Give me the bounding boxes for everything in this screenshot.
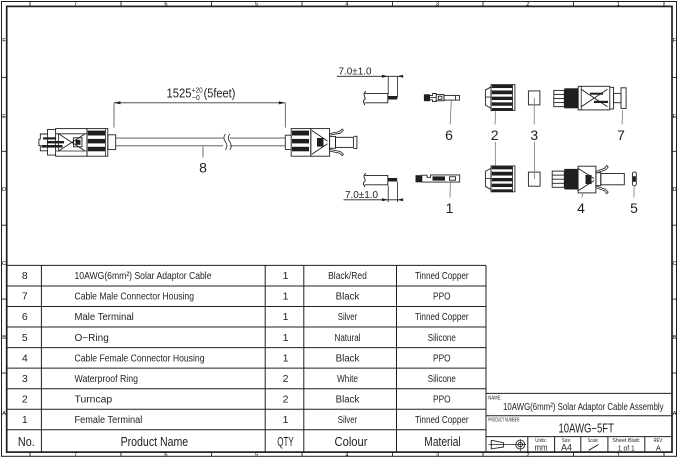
- svg-text:PPO: PPO: [433, 394, 451, 405]
- svg-text:2: 2: [526, 2, 529, 8]
- svg-text:Silicone: Silicone: [428, 333, 456, 344]
- svg-text:Black: Black: [336, 394, 361, 405]
- svg-text:3: 3: [22, 373, 28, 385]
- svg-text:Cable Male Connector Housin: Cable Male Connector Housing: [75, 292, 195, 303]
- svg-text:3: 3: [436, 452, 439, 458]
- svg-text:10AWG(6mm²) Solar Adaptor C: 10AWG(6mm²) Solar Adaptor Cable Assembly: [503, 402, 664, 413]
- svg-text:4: 4: [345, 2, 348, 8]
- svg-text:10AWG−5FT: 10AWG−5FT: [559, 422, 615, 436]
- svg-text:Tinned Copper: Tinned Copper: [415, 415, 469, 426]
- svg-text:B: B: [673, 335, 677, 341]
- svg-text:2: 2: [491, 127, 499, 143]
- svg-text:F: F: [2, 38, 6, 44]
- svg-text:Black/Red: Black/Red: [328, 271, 367, 282]
- svg-text:7: 7: [74, 452, 77, 458]
- svg-text:O−Ring: O−Ring: [75, 333, 109, 344]
- svg-text:2: 2: [283, 393, 289, 405]
- svg-text:Silver: Silver: [338, 415, 358, 426]
- svg-text:A: A: [673, 411, 677, 417]
- svg-text:Turncap: Turncap: [75, 394, 113, 405]
- svg-text:Colour: Colour: [335, 435, 368, 449]
- svg-text:Female Terminal: Female Terminal: [75, 415, 143, 426]
- svg-text:A: A: [656, 443, 661, 452]
- svg-text:3: 3: [530, 127, 538, 143]
- svg-text:mm: mm: [535, 442, 548, 452]
- svg-text:D: D: [672, 187, 676, 193]
- svg-text:Natural: Natural: [335, 333, 361, 344]
- svg-text:1: 1: [283, 332, 289, 344]
- svg-text:F: F: [673, 38, 677, 44]
- svg-text:6: 6: [22, 311, 28, 323]
- svg-text:A4: A4: [561, 442, 572, 452]
- svg-text:Tinned Copper: Tinned Copper: [415, 271, 469, 282]
- svg-text:B: B: [2, 335, 6, 341]
- svg-text:3: 3: [436, 2, 439, 8]
- svg-text:E: E: [2, 114, 6, 120]
- svg-text:6: 6: [164, 452, 167, 458]
- svg-text:1: 1: [617, 452, 620, 458]
- svg-text:D: D: [2, 187, 6, 193]
- svg-text:Material: Material: [424, 435, 460, 449]
- svg-text:5: 5: [255, 2, 258, 8]
- svg-text:7: 7: [617, 127, 625, 143]
- svg-text:8: 8: [199, 160, 207, 176]
- svg-text:1: 1: [283, 352, 289, 364]
- svg-text:2: 2: [526, 452, 529, 458]
- svg-text:5: 5: [630, 200, 638, 216]
- svg-text:−0: −0: [192, 93, 200, 102]
- svg-text:7.0±1.0: 7.0±1.0: [345, 189, 378, 201]
- svg-text:5: 5: [255, 452, 258, 458]
- svg-text:Tinned Copper: Tinned Copper: [415, 312, 469, 323]
- svg-text:7: 7: [74, 2, 77, 8]
- svg-text:Waterproof Ring: Waterproof Ring: [75, 374, 139, 385]
- svg-text:4: 4: [22, 352, 28, 364]
- svg-text:2: 2: [22, 393, 28, 405]
- svg-text:1: 1: [283, 291, 289, 303]
- svg-text:Product Name: Product Name: [121, 435, 189, 449]
- svg-text:1: 1: [446, 200, 454, 216]
- svg-text:No.: No.: [18, 435, 35, 449]
- svg-text:(5feet): (5feet): [204, 86, 236, 100]
- svg-text:A: A: [2, 411, 6, 417]
- svg-text:Cable Female Connector Hous: Cable Female Connector Housing: [75, 353, 205, 364]
- svg-text:1: 1: [283, 270, 289, 282]
- svg-text:Silver: Silver: [338, 312, 358, 323]
- svg-text:PRODUCT NUMBER:: PRODUCT NUMBER:: [488, 417, 520, 423]
- svg-text:C: C: [2, 261, 6, 267]
- svg-text:Male Terminal: Male Terminal: [75, 312, 134, 323]
- svg-text:Black: Black: [336, 353, 361, 364]
- svg-text:1 of 1: 1 of 1: [618, 443, 635, 452]
- svg-text:4: 4: [345, 452, 348, 458]
- svg-text:1525: 1525: [167, 86, 192, 100]
- svg-text:8: 8: [22, 270, 28, 282]
- svg-text:QTY: QTY: [277, 435, 294, 449]
- svg-text:10AWG(6mm²) Solar Adaptor C: 10AWG(6mm²) Solar Adaptor Cable: [75, 271, 212, 282]
- svg-text:Scale:: Scale:: [588, 438, 599, 444]
- svg-text:6: 6: [164, 2, 167, 8]
- svg-text:E: E: [673, 114, 677, 120]
- svg-text:PPO: PPO: [433, 353, 451, 364]
- svg-text:5: 5: [22, 332, 28, 344]
- svg-text:7.0±1.0: 7.0±1.0: [339, 66, 372, 78]
- svg-text:Silicone: Silicone: [428, 374, 456, 385]
- svg-text:2: 2: [283, 373, 289, 385]
- svg-text:7: 7: [22, 291, 28, 303]
- svg-text:C: C: [672, 261, 676, 267]
- svg-text:PPO: PPO: [433, 292, 451, 303]
- svg-text:White: White: [337, 374, 358, 385]
- svg-text:1: 1: [22, 414, 28, 426]
- svg-text:1: 1: [283, 414, 289, 426]
- svg-text:4: 4: [577, 200, 585, 216]
- svg-text:NAME:: NAME:: [488, 395, 502, 401]
- svg-text:Black: Black: [336, 292, 361, 303]
- svg-text:1: 1: [283, 311, 289, 323]
- svg-text:6: 6: [445, 127, 453, 143]
- svg-text:1: 1: [617, 2, 620, 8]
